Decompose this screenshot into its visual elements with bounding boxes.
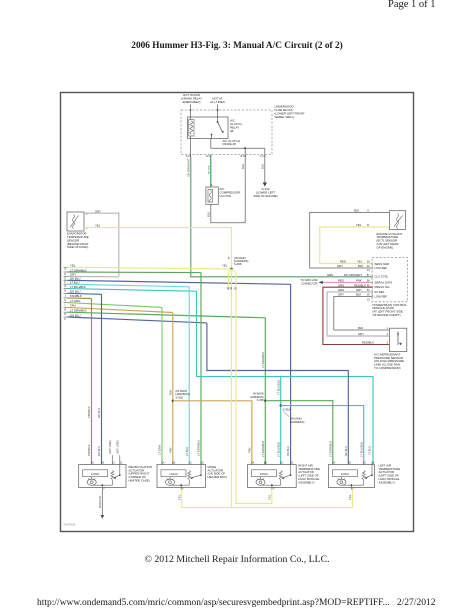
- svg-text:LT GRN/BLK: LT GRN/BLK: [70, 309, 87, 313]
- svg-text:TAN: TAN: [168, 390, 172, 395]
- left air temperature actuator feedback potentiometer: [362, 471, 365, 480]
- left air temperature actuator box: [328, 465, 374, 488]
- mode actuator logic block: [161, 470, 186, 477]
- wire LT BLU/BLK branch to left temp actuator pin 3: [281, 406, 364, 465]
- svg-text:LT BLU/BLK: LT BLU/BLK: [276, 442, 280, 457]
- wire DK BLU from HVAC control connector pin P: [64, 316, 68, 318]
- svg-text:C2: C2: [367, 299, 371, 301]
- svg-text:BLK: BLK: [356, 293, 361, 297]
- svg-text:5V REF: 5V REF: [375, 290, 385, 294]
- evaporator temperature sensor: [67, 212, 84, 231]
- svg-text:C: C: [64, 268, 66, 271]
- svg-text:YEL: YEL: [356, 223, 362, 227]
- wire LT GRN/BLK from HVAC control connector pin N: [64, 311, 68, 313]
- wire PNK serial data: [322, 281, 372, 283]
- svg-text:ASSEMBLY): ASSEMBLY): [379, 480, 395, 484]
- svg-text:LT BLU: LT BLU: [70, 281, 80, 285]
- wire BLK clutch return: [211, 158, 245, 223]
- wire GRY from HVAC control connector pin E: [64, 275, 68, 277]
- title: [0, 41, 474, 51]
- svg-text:LT GRN/BLK: LT GRN/BLK: [261, 441, 265, 457]
- svg-text:PRESS SIG: PRESS SIG: [375, 285, 390, 289]
- wire TAN/BLK drop to recirculation actuator: [91, 299, 93, 465]
- svg-text:F: F: [273, 488, 275, 490]
- wire TAN/BLK from HVAC control connector pin K: [64, 297, 68, 299]
- wire BLK/WHT recirculation actuator ground: [101, 490, 103, 517]
- svg-text:DK BLU: DK BLU: [70, 313, 80, 317]
- wire YEL evap sensor low ref: [84, 228, 232, 269]
- svg-text:SIDE OF ENGINE): SIDE OF ENGINE): [253, 194, 277, 198]
- svg-text:ORN: ORN: [338, 283, 344, 287]
- wire LT BLU from HVAC control connector pin G: [64, 283, 68, 285]
- wire YEL from HVAC control connector pin C: [64, 266, 68, 268]
- svg-text:F: F: [182, 488, 184, 490]
- svg-text:CONNECTOR: CONNECTOR: [301, 282, 318, 286]
- wire DK GRN/WHT relay control to PCM: [191, 158, 372, 277]
- footer copyright: [0, 554, 474, 565]
- wire GRY pressure sensor 5v ref: [327, 292, 389, 336]
- svg-text:N: N: [64, 313, 66, 316]
- svg-text:ASSEMBLY): ASSEMBLY): [298, 480, 314, 484]
- svg-text:LOGIC: LOGIC: [260, 472, 268, 476]
- svg-text:GRY: GRY: [338, 293, 344, 297]
- recirculation actuator feedback potentiometer: [111, 471, 114, 480]
- A/C refrigerant pressure sensor box: [389, 328, 406, 351]
- svg-text:LT GRN/BLK: LT GRN/BLK: [197, 440, 201, 456]
- wire LT BLU/BLK from HVAC control connector pin H: [64, 288, 68, 290]
- svg-text:DK BLU: DK BLU: [97, 446, 101, 456]
- svg-text:TAN: TAN: [248, 448, 252, 453]
- splice S-306 on YEL: [230, 268, 233, 271]
- svg-text:YEL: YEL: [222, 264, 228, 268]
- svg-text:TO DATA LINK: TO DATA LINK: [300, 278, 317, 282]
- wire BLK to ground G-102: [264, 158, 266, 183]
- svg-text:H: H: [64, 290, 66, 293]
- svg-text:F: F: [64, 281, 66, 284]
- recirculation actuator connector pins: [91, 462, 93, 465]
- recirculation actuator motor: [91, 477, 93, 480]
- svg-text:DK BLU: DK BLU: [97, 408, 101, 418]
- svg-text:DK BLU: DK BLU: [286, 446, 290, 456]
- wire YEL to right temp actuator: [236, 290, 272, 504]
- svg-text:HEATER BOX): HEATER BOX): [208, 475, 227, 479]
- PCM dashed box: [372, 258, 408, 302]
- svg-text:RED/BLK: RED/BLK: [362, 341, 374, 345]
- svg-text:RED/BLK: RED/BLK: [354, 283, 366, 287]
- wire fuse block output bus: [211, 147, 265, 149]
- svg-text:BLK/WHT: BLK/WHT: [98, 495, 102, 508]
- wire LT GRN/BLK branch to left temp actuator: [265, 401, 333, 465]
- wire LT GRN drop to mode actuator: [161, 307, 163, 464]
- svg-text:48: 48: [230, 129, 234, 133]
- wire relay output: [210, 139, 212, 149]
- svg-text:BLK: BLK: [206, 212, 210, 217]
- svg-text:E: E: [64, 277, 66, 280]
- page number: [388, 0, 436, 10]
- svg-text:TAN/BLK: TAN/BLK: [87, 406, 91, 418]
- svg-text:(NOT USED): (NOT USED): [118, 440, 120, 454]
- svg-text:LT BLU/BLK: LT BLU/BLK: [359, 442, 363, 457]
- wire DK BLU trunk to left temp actuator pin 2: [207, 323, 348, 465]
- wire DK GRN to compressor clutch: [210, 158, 212, 188]
- wire YEL ECT signal to PCM: [320, 227, 390, 264]
- wire LT BLU drop to mode actuator: [188, 287, 190, 465]
- wire YEL to mode and left temp actuators: [231, 290, 233, 508]
- svg-text:SERIAL DATA: SERIAL DATA: [375, 280, 393, 284]
- wire LT GRN/BLK drop to mode actuator: [200, 273, 202, 465]
- svg-text:C1: C1: [367, 270, 371, 272]
- svg-text:GRN: GRN: [327, 273, 333, 277]
- svg-text:CLUTCH: CLUTCH: [220, 194, 232, 198]
- recirculation actuator bottom pin: [101, 488, 103, 490]
- svg-text:YEL: YEL: [267, 494, 271, 500]
- svg-text:L: L: [65, 304, 67, 307]
- wire TAN trunk with splice S-302: [172, 313, 174, 465]
- svg-text:OF ENGINE): OF ENGINE): [377, 245, 394, 249]
- svg-text:GRY: GRY: [358, 332, 364, 336]
- svg-text:LOW REF: LOW REF: [375, 294, 388, 298]
- svg-text:J: J: [65, 294, 67, 297]
- wire DK BLU drop to recirculation actuator: [101, 294, 103, 464]
- relay coil to pin wire: [190, 136, 192, 155]
- relay coil: [189, 120, 194, 137]
- wire LT GRN from HVAC control connector pin L: [64, 302, 68, 304]
- svg-text:YEL: YEL: [70, 264, 76, 268]
- svg-text:LOGIC: LOGIC: [341, 472, 349, 476]
- mode actuator connector pins: [161, 462, 163, 465]
- svg-text:S-302: S-302: [176, 395, 184, 399]
- svg-text:TAN: TAN: [70, 304, 76, 308]
- right air temperature actuator bottom pin: [271, 488, 273, 490]
- wire TAN branch to right temp actuator: [173, 401, 252, 465]
- left air temperature actuator connector pins: [332, 462, 334, 465]
- svg-text:YEL: YEL: [357, 260, 363, 264]
- svg-text:LT BLU: LT BLU: [368, 446, 372, 455]
- relay switch contact: [217, 121, 219, 123]
- svg-text:LT BLU/BLK: LT BLU/BLK: [70, 285, 86, 289]
- svg-text:S-306: S-306: [234, 262, 242, 266]
- right air temperature actuator box: [248, 465, 297, 488]
- wire LT BLU/BLK branch via splice S-310: [280, 377, 282, 465]
- wire LT GRN/BLK from HVAC control connector pin D: [64, 271, 68, 273]
- svg-text:B C3: B C3: [241, 155, 247, 158]
- frame border: [61, 93, 414, 532]
- svg-text:RED: RED: [338, 279, 344, 283]
- svg-text:OF ENGINE COMPT): OF ENGINE COMPT): [373, 313, 401, 317]
- relay K1 A/C clutch relay box: [188, 117, 229, 139]
- svg-text:HARNESS): HARNESS): [290, 420, 305, 424]
- svg-text:YEL: YEL: [177, 494, 181, 500]
- svg-text:BLK: BLK: [358, 264, 363, 268]
- svg-text:GRY: GRY: [356, 288, 362, 292]
- svg-text:E: E: [228, 257, 230, 260]
- recirculation actuator box: [79, 465, 126, 488]
- wire RED/BLK A/C pressure signal: [323, 287, 390, 344]
- ground G-102: [263, 183, 267, 187]
- svg-text:DK BLU: DK BLU: [70, 290, 80, 294]
- svg-text:G: G: [64, 285, 66, 288]
- mode actuator internal return bus: [188, 480, 190, 486]
- svg-text:LOGIC: LOGIC: [91, 472, 99, 476]
- wire drop to pin F: [264, 148, 266, 154]
- svg-text:02A75636: 02A75636: [64, 523, 76, 527]
- right air temperature actuator internal return bus: [280, 480, 282, 486]
- svg-text:ALL TIMES: ALL TIMES: [210, 100, 225, 104]
- wire LT GRN/BLK trunk with splice S-308: [264, 318, 266, 465]
- svg-text:(NOT USED): (NOT USED): [110, 440, 112, 454]
- mode actuator bottom pin: [180, 488, 182, 490]
- svg-text:F: F: [104, 488, 106, 490]
- svg-text:LT GRN: LT GRN: [70, 299, 80, 303]
- fuse block connector pins: [190, 155, 192, 158]
- wire drop to pin B: [244, 148, 246, 154]
- mode actuator box: [157, 465, 205, 488]
- svg-text:DK GRN/WHT: DK GRN/WHT: [187, 158, 191, 176]
- svg-text:LT BLU: LT BLU: [185, 447, 189, 456]
- underhood fuse block dashed box: [181, 110, 272, 155]
- svg-text:YEL: YEL: [95, 224, 101, 228]
- svg-text:M: M: [64, 308, 66, 311]
- mode actuator motor: [169, 477, 171, 480]
- wire TAN from HVAC control connector pin M: [64, 306, 68, 308]
- wire feed to relay coil: [190, 105, 192, 120]
- svg-text:BLK: BLK: [241, 164, 245, 169]
- svg-text:PNK: PNK: [356, 279, 362, 283]
- svg-text:LT GRN/BLK: LT GRN/BLK: [261, 352, 265, 368]
- svg-text:A: A: [253, 462, 255, 465]
- right air temperature actuator logic block: [252, 470, 277, 477]
- left air temperature actuator internal return bus: [363, 480, 365, 486]
- svg-text:RED: RED: [340, 260, 346, 264]
- right air temperature actuator feedback potentiometer: [279, 471, 282, 480]
- svg-text:BLK: BLK: [354, 209, 359, 213]
- wire DK BLU from HVAC control connector pin F: [64, 279, 68, 281]
- svg-text:S-308: S-308: [257, 398, 264, 402]
- left air temperature actuator bottom pin: [350, 488, 352, 490]
- svg-text:TAN/BLK: TAN/BLK: [87, 444, 91, 456]
- recirculation actuator internal return bus: [111, 480, 113, 486]
- svg-text:GRY: GRY: [337, 264, 343, 268]
- svg-text:A: A: [163, 462, 165, 465]
- svg-text:P: P: [64, 318, 66, 321]
- wire feed to relay switch: [217, 105, 219, 122]
- svg-text:LOW REF: LOW REF: [375, 266, 388, 270]
- svg-text:A: A: [334, 462, 336, 465]
- svg-text:S-310: S-310: [283, 407, 291, 411]
- ECT sensor box: [389, 211, 405, 230]
- svg-text:LT BLU/BLK: LT BLU/BLK: [276, 380, 280, 395]
- svg-text:CLU CTRL: CLU CTRL: [375, 275, 389, 279]
- svg-text:BLK: BLK: [358, 326, 363, 330]
- svg-text:HEATER CASE): HEATER CASE): [129, 478, 150, 482]
- wire DK BLU from HVAC control connector pin J: [64, 292, 68, 294]
- svg-text:D: D: [64, 273, 66, 276]
- recirculation actuator logic block: [83, 470, 108, 477]
- wire YEL fanout from splice: [229, 269, 232, 272]
- svg-text:TAN/BLK: TAN/BLK: [70, 294, 82, 298]
- svg-text:DK BLU: DK BLU: [344, 446, 348, 456]
- wire BLK ECT to PCM low ref: [310, 213, 390, 269]
- right air temperature actuator connector pins: [251, 462, 253, 465]
- left air temperature actuator motor: [340, 477, 342, 480]
- svg-text:DIODE 48: DIODE 48: [223, 142, 237, 146]
- wire GRY evap sensor signal: [84, 213, 119, 276]
- right air temperature actuator motor: [260, 477, 262, 480]
- recirculation actuator unused pin stubs: [111, 455, 113, 464]
- svg-text:BLK: BLK: [260, 164, 264, 169]
- svg-text:YEL: YEL: [348, 494, 352, 500]
- wire DK BLU drop to right temp actuator: [290, 284, 292, 464]
- inline connector pins on YEL: [228, 287, 230, 290]
- A/C compressor clutch: [206, 187, 218, 204]
- wire BLK pressure sensor low ref: [334, 296, 390, 330]
- svg-text:GRN: GRN: [338, 288, 344, 292]
- svg-text:DK GRN/WHT: DK GRN/WHT: [344, 273, 362, 277]
- svg-text:A: A: [92, 462, 94, 465]
- svg-text:DK GRN: DK GRN: [208, 165, 210, 174]
- mode actuator feedback potentiometer: [188, 471, 191, 480]
- svg-text:LOGIC: LOGIC: [169, 472, 177, 476]
- svg-text:F: F: [353, 488, 355, 490]
- wire LT BLU/BLK trunk to left temp actuator: [197, 291, 374, 464]
- left air temperature actuator logic block: [332, 470, 357, 477]
- svg-text:LT GRN/BLK: LT GRN/BLK: [70, 268, 87, 272]
- svg-text:LT GRN/BLK: LT GRN/BLK: [328, 441, 332, 457]
- svg-text:TAN: TAN: [168, 448, 172, 453]
- svg-text:ENERGIZED): ENERGIZED): [183, 100, 201, 104]
- svg-text:K: K: [64, 299, 66, 302]
- svg-text:WHEEL WELL): WHEEL WELL): [275, 115, 295, 119]
- svg-text:SIDE OF DASH): SIDE OF DASH): [67, 245, 88, 249]
- svg-text:TO COMPRESSOR): TO COMPRESSOR): [374, 366, 401, 370]
- svg-text:GRY: GRY: [95, 209, 101, 213]
- footer url: [37, 598, 435, 608]
- svg-text:LT GRN: LT GRN: [158, 445, 162, 455]
